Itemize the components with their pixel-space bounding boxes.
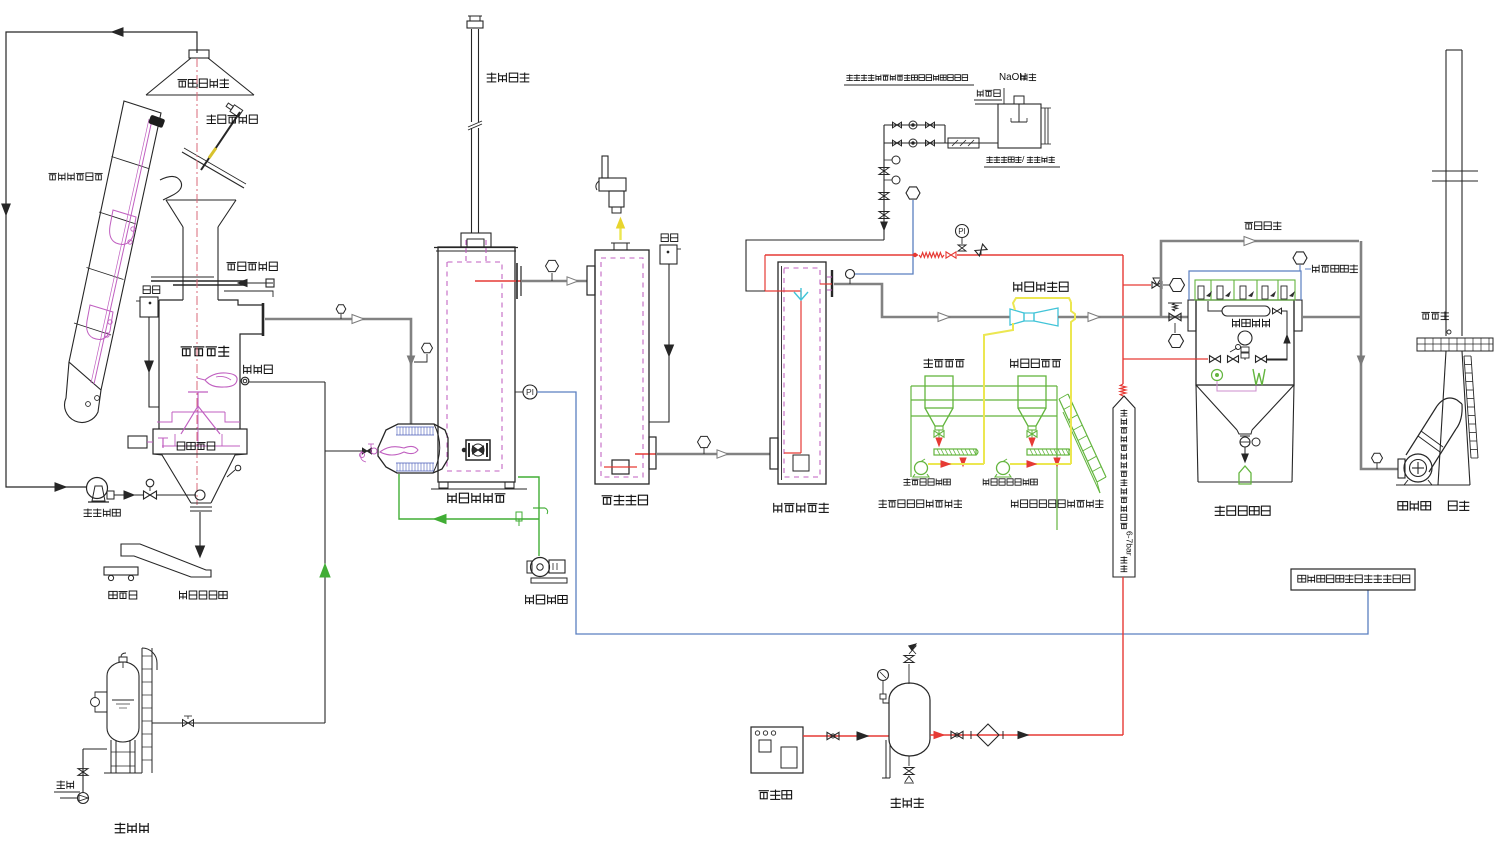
quench tower inlet flange [770,438,778,469]
interlock hexagon below damper [1169,335,1184,348]
arrow on alkali feed (down) [881,222,887,230]
green arrow on diesel riser (up) [320,564,330,577]
label 活性炭输送风机 [983,479,1037,486]
conveyor head drive motor [148,115,165,129]
water tank 1 水箱 [140,297,158,317]
cone outlet circle [195,490,205,500]
conveyor bucket 2 (magenta) [87,305,113,339]
red riser below banner to air tank line [1122,577,1124,735]
label 二次风机 [526,595,568,604]
alkali feed down line [883,125,885,240]
arrow into oxygen fan (right) [55,483,66,491]
NaOH tank agitator [1014,96,1024,104]
rotary airlock circles [1240,435,1250,437]
conveyor boot (bottom curved) [65,362,101,422]
compressed air source banner 压缩空气管自厂内压缩空气总管6-7bar压力 [1113,396,1135,577]
red arrow on carbon air line [1027,461,1036,467]
ash drop line with arrow [199,512,201,549]
furnace body outline [182,280,184,300]
label 盖板密封阀 [207,115,258,124]
stair lower rail [1063,412,1100,493]
grate magenta mechanism T-stem [197,392,199,406]
svg-text:PI: PI [958,227,966,236]
stack body below platform [1438,351,1446,485]
red arrow on lime air line [941,461,950,467]
conveyor chain line (magenta) [94,120,152,384]
diesel pump [78,793,89,804]
hollow arrow on duct [352,315,364,324]
furnace bottom cone [153,454,191,503]
baghouse top green cell frame [1195,280,1295,300]
tank support leg [885,740,887,778]
signal line blue: PI to interlock box route [537,392,1368,634]
cone bottom flange [190,506,212,508]
baghouse body [1196,300,1294,385]
label 活性炭输送及给料装置 [1011,500,1103,508]
venturi dry reactor (cyan) [1010,309,1024,325]
arrow on recirculation left line (down) [2,204,10,215]
label 采样点 [1422,312,1449,320]
quench tower internal red spray pipe [800,291,802,453]
conveyor segment divider 2 [99,212,136,224]
green discharge bottle [1239,466,1251,484]
feed chute diagonal [182,152,244,188]
diesel vent arc [142,648,157,670]
emergency stack tube [471,29,473,233]
water tank 2 水箱 [660,245,677,264]
label 补氧风机 [84,509,121,517]
pulse control hexagon 脉冲控制仪 [1293,252,1307,264]
clean gas outlet duct to fan leg [1302,316,1361,319]
refractory liner dashed (magenta) [447,262,502,471]
small arrow on bypass down leg [1357,356,1364,365]
stack break marks [467,122,481,128]
label 空压机 [759,790,792,800]
valve rod 盖板密封阀 [201,112,240,170]
quench tower outlet flange right [831,270,833,297]
valve on diesel pipe [183,720,194,727]
grate magenta triangle [181,406,220,434]
spray assembly above heat exchanger [602,156,608,178]
red arrow carbon feeder outlet [1054,458,1060,466]
yellow line carbon blower to venturi [1010,463,1071,465]
label 水箱 right [661,234,678,242]
conveyor segment divider 3 [87,268,124,280]
bypass down leg to fan [1361,241,1398,469]
label 水箱 left [143,286,160,294]
conveyor head discharge chute (curved) [160,176,182,200]
tank bottom drain [908,756,910,766]
ash cart 出灰车 [104,567,138,575]
label 刮板除渣机 [180,591,228,599]
inspection damper box inside furnace [466,440,490,460]
lime screw feeder [934,449,976,455]
label 热解炉体 [181,346,230,357]
secondary fan 二次风机 [531,558,550,577]
arrow on water line 2 (down) [665,345,674,356]
water line into heat exchanger [649,264,669,422]
secondary furnace top plate [434,247,518,249]
support frame green [911,385,1057,387]
label 旁通烟道 [1245,222,1282,230]
hollow arrow before venturi [938,313,950,322]
duct secondary furnace to heat exchanger [522,280,587,282]
valve after tank [951,731,963,738]
diesel tank legs [110,740,112,773]
arrow on red line to riser [1018,731,1028,738]
duct: pyrolysis gas to secondary combustor [265,319,411,424]
label 柴油 with underline [57,781,74,789]
secondary furnace top connection box [461,233,491,247]
diesel pump discharge with valve [82,749,84,792]
red line continues to compressed air riser [957,254,1123,256]
bag cages and pulse valves (black) [1198,286,1204,299]
diesel supply pipe to burners [152,722,325,724]
PI gauge on red line [956,225,969,238]
label NaOH滤液 [999,72,1036,83]
furnace neck [182,227,184,280]
side combustor burner hardware [363,448,372,454]
tap water inlet line [975,103,998,105]
branch to secondary burner [325,450,362,452]
wire: sealed-air recirculation loop from hood to oxygen fan [6,32,197,487]
grate drive box left [128,436,147,448]
blue hatch band top [396,426,434,428]
baghouse hopper [1196,385,1237,430]
quench tower bottom internal box [793,455,809,471]
instrument hexagon near duct elbow [422,343,433,353]
scraper conveyor 刮板除渣机 [121,544,211,577]
label 自来水 with underline [977,90,1000,97]
red outlet line stub [635,453,664,455]
temperature instrument on tower outlet [846,270,855,279]
blue signal: outlet temp to interlock hexagon [855,200,913,274]
hollow arrow to heat exchanger [567,277,578,285]
grate magenta lower bar [162,445,240,447]
red arrow after tank [934,731,944,738]
sampling point circle [1447,330,1451,334]
label 烟囱 [1448,501,1469,511]
bottom right outlet flange [649,437,656,469]
water line from tank to furnace [149,317,159,407]
label 密封上料系统 [49,173,103,181]
lime silo discharge valve [934,431,944,437]
secondary furnace feet [439,482,448,488]
green valve symbols [516,512,522,521]
red gas line inside secondary furnace [475,280,521,282]
red branch to bypass damper [1123,284,1151,286]
grate magenta spreader bar [172,411,225,413]
diesel tank vessel [107,662,139,742]
ID fan volute 引风机 [1404,454,1432,482]
conveyor segment divider 4 [74,323,111,335]
label 引风机 [1398,501,1431,511]
small arrow on duct vertical (down) [407,356,414,365]
cone level sensor circle [235,465,241,471]
yellow arrow into heat exchanger top (up) [619,226,621,240]
duct venturi to baghouse [1058,316,1188,319]
label 石灰料仓 [924,359,965,368]
diesel tank liquid level lines [112,699,134,701]
heat exchanger top nozzle [614,243,627,250]
conveyor bucket 1 (magenta) [110,210,136,244]
label 二次燃烧炉 [448,493,506,503]
red arrow lime feeder outlet [960,458,966,466]
NaOH tank 碱液配制罐 [998,104,1041,148]
diesel level gauge [91,698,100,707]
interlock hexagon above tower [906,187,920,199]
arrow on recirculation top line (leftward) [112,28,123,36]
baghouse skirt [1196,385,1198,482]
compressor inner squares [759,740,771,752]
red line tower outlet liner mark [820,283,832,285]
left inlet flange [587,266,595,295]
baghouse outlet box right [1294,300,1302,331]
damper valve on main duct before baghouse [1169,313,1181,320]
alkali dosing pump line lower [884,142,998,144]
fan inlet box [1398,459,1405,478]
label 碱液配制罐/碱液储罐 with underline [986,154,1054,164]
label 插板密封阀 [227,262,278,271]
tick marks [970,731,972,739]
diesel tank top cap [119,657,127,662]
air valve to furnace [114,494,143,496]
label 石灰输送及给料装置 [879,500,962,508]
valve rod yellow segment [209,148,216,158]
oxygen fan 补氧风机 [87,478,108,499]
label 干式反应器 [1014,282,1068,292]
duct heat exchanger to quench tower [656,453,770,456]
tank pressure gauge [878,670,889,681]
blue pulse control circuit [1189,271,1301,300]
static mixer box on lower line [948,138,979,148]
grate box [153,429,247,454]
diesel tank leg braces [111,751,135,753]
carbon blower 活性炭输送风机 [997,462,1010,475]
burner body circle [241,377,249,385]
carbon silo 活性炭料仓 [1018,376,1046,408]
stack sampling platform 采样点 [1417,338,1493,351]
carbon silo discharge valve [1027,431,1037,437]
svg-text:6-7bar: 6-7bar [1125,531,1135,556]
conveyor casing (inclined bucket elevator) [69,101,161,390]
instrument hexagon on duct [336,305,346,313]
heat exchanger liner dashed (magenta) [601,258,643,477]
three-way solenoid on red branch [1152,282,1162,288]
air tank 贮气罐 [889,683,930,756]
hood trapezoid [146,58,191,95]
svg-text:/: / [1022,154,1025,164]
label 炭转炉排 [177,442,215,450]
PI gauge on secondary furnace [515,391,523,393]
heat exchanger internal box with red line [612,460,629,474]
compressed air riser red [1122,255,1124,384]
label 布袋除尘器 [1215,506,1270,516]
zigzag above banner [1120,384,1126,396]
diesel riser pipe [324,382,326,723]
conveyor chain rollers (magenta) [131,227,135,231]
side combustor flame (magenta) [380,446,418,455]
instrument bubbles on alkali line [892,156,900,164]
red line tank to riser [930,734,1123,736]
flexible hose zigzag on red line [919,253,944,258]
instrument hexagon on HE outlet duct [698,436,711,447]
red arrow carbon drop [1029,438,1035,446]
pulse air header capsule 反吹汽缸 [1222,306,1270,316]
stack tube upper [1445,50,1447,336]
valve rod handle blocks [225,101,243,117]
quench tower body [778,262,826,484]
label 应急烟囱 [487,73,530,83]
title 碱液量与急冷中和塔出口烟气温度连锁 with underline [846,74,967,80]
hood 密闭吸风罩 top stub box [189,50,209,58]
grate drive magenta tee [162,438,164,448]
label 石灰输送风机 [904,478,951,485]
ash discharge arrow [1244,447,1246,456]
label 热交换器 [602,495,648,505]
side combustor inner end arc [433,424,440,473]
slide gate rod with arrow [244,282,273,284]
stack ladder [1464,356,1471,458]
red compressed air to pulse system [1123,358,1208,360]
heat exchanger body [595,250,649,484]
NaOH feed line black elbow [746,240,884,291]
stack flange [1432,170,1478,172]
hollow arrow on bypass [1244,237,1256,246]
fan feet [1404,480,1408,485]
pulse system valve row [1210,356,1221,363]
hopper outlet trapezoid [1237,430,1252,434]
bypass duct 旁通烟道 [1161,241,1359,317]
junction dot on red line [913,253,917,257]
pink signal line [1217,381,1256,391]
slide gate bracket [224,291,273,297]
stair stringers green [1059,399,1097,482]
label 出灰车 [109,591,137,599]
arrow on compressor line [857,732,868,740]
valve on compressor line [827,732,839,739]
fan ground line [1396,484,1470,486]
furnace outlet flange bar [262,303,265,336]
regulator stack [1241,347,1249,352]
label 反吹汽缸 [1233,319,1270,327]
cyan spray nozzle in tower [800,288,802,299]
green level indicator circle [1212,370,1223,381]
red spray water line to tower [765,254,918,256]
svg-text:NaOH: NaOH [999,72,1026,83]
pulse tank circle [1238,331,1252,345]
lime blower 石灰输送风机 [915,462,928,475]
diesel suction line [60,797,77,799]
compressor indicator circles [755,731,759,735]
NaOH tank level gauge [1044,108,1046,144]
furnace centerline (dash-dot) [196,58,198,505]
arrow on water line (down) [145,361,153,372]
interlock hexagon right of solenoid [1170,279,1185,292]
red line compressor to tank [803,735,889,737]
emergency stack top cap [467,21,483,28]
fan outlet duct to stack [1406,406,1437,455]
burner flame 燃烧器 (magenta) [205,373,237,387]
hollow arrow on HE outlet duct [717,450,728,458]
interlock text box [1291,569,1415,590]
quench tower liner dashed (magenta) [784,268,820,477]
label 活性炭料仓 [1011,359,1061,368]
tank safety valve [908,664,910,684]
label 贮气罐 [891,798,924,808]
valves on alkali feed line [879,168,889,175]
blue hatch band bottom [396,462,434,464]
instrument hexagon at fan inlet [1372,453,1383,463]
conveyor segment divider 1 [112,157,149,169]
baghouse inlet box left [1188,300,1196,331]
air compressor 空压机 cabinet [751,727,803,773]
angle control valve on red line [975,244,987,256]
NaOH inlet line [1003,88,1005,104]
svg-text:PI: PI [526,387,534,397]
green vibrator W symbol [1253,369,1265,385]
red arrow lime drop [936,438,942,446]
instrument hexagon on crossover duct [546,260,559,271]
diesel frame ladder right [141,648,143,773]
secondary furnace body [438,247,515,482]
carbon screw feeder [1027,449,1069,455]
label 柴油槽 [115,823,149,833]
valve on red line after hose [946,252,956,258]
yellow line lime blower to venturi [928,463,984,465]
label 脉冲控制仪 [1312,265,1358,273]
grate magenta side steps [157,412,172,422]
header outlet valve and loop [1273,308,1282,314]
label 急冷中和塔 [774,503,829,513]
alkali dosing pump line upper [884,124,945,126]
green arrow on secondary air line (left) [434,515,446,524]
side combustor barrel [378,424,448,473]
green pipe: fan riser and branches [399,474,539,519]
label 密闭吸风罩 [178,79,229,88]
hollow arrow after venturi [1088,313,1100,322]
label 燃烧器 [244,365,273,374]
expansion joint flange right [516,263,518,299]
slide gate valve 插板密封阀 plates [151,280,245,282]
furnace top trapezoid hopper [166,199,236,201]
lime silo 石灰料仓 [925,376,953,408]
air filter diamond [977,724,999,746]
duct quench tower to venturi [834,284,1010,317]
burner fuel line horizontal [249,381,325,383]
